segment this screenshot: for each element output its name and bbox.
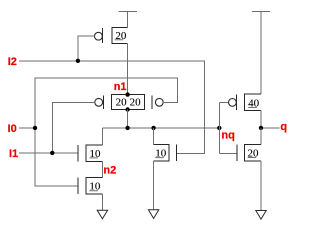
wire n1 bottom to nq line [127, 110, 129, 128]
wire I2 horizontal and route to mid nmos gate [19, 61, 205, 154]
transistor Q4 gate bar [175, 144, 177, 161]
underline Q2 value [89, 157, 98, 159]
svg-text:20: 20 [116, 97, 128, 109]
node dot I2 gate tap [76, 59, 80, 63]
transistor Q3 nmos 10 (I0) channel bracket [86, 177, 102, 194]
wire nq long horizontal [102, 127, 219, 129]
svg-text:I1: I1 [9, 148, 18, 160]
transistor M1 gate bar [102, 28, 104, 43]
wire nq to M5 gate [219, 101, 228, 103]
wire supply to M1 drain [127, 11, 129, 27]
wire supply to M5 [260, 11, 262, 94]
ground symbol left [97, 210, 107, 219]
wire nq to Q6 gate [219, 153, 237, 155]
pmos pair left gate bar [103, 95, 105, 108]
node dot I0 [33, 126, 37, 130]
wire n2 between Q2 and Q3 [101, 161, 103, 177]
wire q horizontal [261, 127, 279, 129]
transistor M5 gate bubble [229, 99, 237, 107]
underline M1 value [115, 39, 124, 41]
svg-text:q: q [280, 121, 287, 133]
transistor Q3 gate bar [77, 177, 79, 194]
svg-text:I2: I2 [8, 56, 17, 68]
pmos pair right gate bar [151, 95, 153, 108]
wire I1 horizontal to nmos Q2 gate [19, 152, 78, 154]
transistor M5 gate bar [236, 95, 238, 110]
transistor Q2 gate bar [77, 145, 79, 162]
pmos pair left gate bubble [95, 98, 103, 106]
transistor Q2 nmos 10 (I1) channel bracket [86, 145, 102, 162]
wire M5 drain to q row [260, 110, 262, 127]
wire right gate lead up over to I0 [35, 78, 178, 186]
ground symbol middle [148, 210, 158, 219]
wire left gate lead down to I1 [52, 102, 95, 153]
wire Q4 source to ground [153, 161, 155, 210]
underline Q3 value [89, 190, 98, 192]
wire nq vertical branch right [218, 102, 220, 153]
wire nq left end down to nmos Q2 [101, 128, 103, 145]
ground symbol right [256, 211, 266, 220]
node dot n1 bottom [125, 107, 129, 111]
wire M1 drain down to n1 [127, 44, 129, 95]
node dot n1 top [125, 92, 129, 96]
transistor Q6 nmos 20: channel bracket [244, 144, 261, 161]
wire mid nmos drain up to nq [153, 128, 155, 144]
wire Q6 source to ground [260, 161, 262, 211]
node dot q [259, 126, 263, 130]
wire M1 gate lead to I2 [78, 36, 95, 61]
power supply bar left [119, 10, 137, 12]
underline Q4 value [155, 157, 164, 159]
transistor M1 gate bubble [95, 32, 103, 40]
svg-text:20: 20 [130, 97, 142, 109]
transistor Q4 nmos 10 middle: channel bracket mirrored [154, 144, 170, 161]
transistor M1 pmos 20 top: channel bracket [112, 27, 128, 43]
node dot nq at pair drain [125, 126, 129, 130]
svg-text:nq: nq [221, 130, 234, 142]
node dot nq right end [217, 126, 221, 130]
wire q row down to Q6 [260, 128, 262, 144]
underline M5 value [248, 106, 257, 108]
svg-text:n1: n1 [114, 81, 127, 93]
wire I0 horizontal [19, 127, 35, 129]
pmos pair right gate bubble [155, 98, 163, 106]
underline Q6 value [248, 157, 257, 159]
transistor Q6 gate bar [236, 144, 238, 161]
svg-text:I0: I0 [8, 123, 17, 135]
node dot nq at mid nmos [151, 126, 155, 130]
transistor M5 pmos 40: channel bracket [245, 94, 262, 111]
svg-text:n2: n2 [103, 165, 116, 177]
pmos pair box n1 [112, 95, 145, 110]
wire Q3 source to ground [101, 194, 103, 210]
node dot I1 [50, 151, 54, 155]
power supply bar right [252, 10, 270, 12]
